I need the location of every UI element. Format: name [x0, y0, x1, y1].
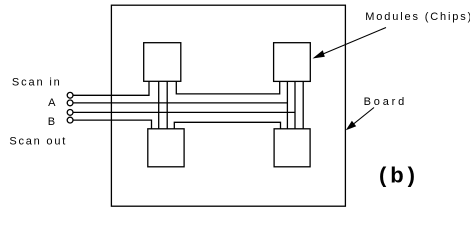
wire: scan chain link M2 to M4: [302, 81, 304, 128]
wire: right column bus vertical 2 (M2 to M4): [294, 81, 296, 128]
svg-text:B: B: [48, 116, 55, 128]
node: A terminal circle: [67, 100, 73, 106]
wire: Scan in line entering board to module M1 pin: [73, 81, 149, 95]
wire: right column bus vertical 1 (M2 to M4): [286, 81, 288, 128]
arrow: callout line from Modules label to module M2: [313, 28, 387, 59]
wire: bus line B: [73, 111, 295, 113]
wire: scan chain link M1 to M2: [176, 81, 279, 94]
arrow: callout line from Board label to board edge: [346, 108, 374, 131]
svg-text:Modules (Chips): Modules (Chips): [365, 11, 470, 23]
module M4 (bottom-right chip): [274, 129, 310, 167]
svg-text:Scan out: Scan out: [9, 136, 67, 148]
wire: Scan out line from module M3 pin: [73, 120, 152, 129]
module M3 (bottom-left chip): [148, 129, 184, 167]
board: [111, 5, 345, 206]
module M1 (top-left chip): [144, 43, 181, 82]
wire: bus line A: [73, 102, 287, 104]
svg-text:Board: Board: [364, 96, 408, 108]
svg-text:Scan in: Scan in: [12, 77, 62, 89]
wire: left column bus vertical 2 (M1 to M3): [166, 81, 168, 129]
wire: scan chain link M4 to M3: [174, 122, 280, 129]
svg-text:(b): (b): [379, 163, 419, 188]
node: B terminal circle: [67, 110, 73, 116]
node: Scan out terminal circle: [67, 117, 73, 123]
module M2 (top-right chip): [274, 43, 311, 82]
wire: left column bus vertical 1 (M1 to M3): [158, 81, 160, 129]
node: Scan in terminal circle: [67, 92, 73, 98]
svg-text:A: A: [48, 97, 56, 109]
